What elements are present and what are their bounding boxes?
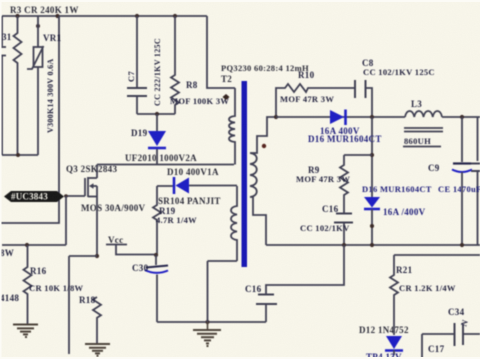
wire to output cap (442, 116, 480, 118)
wire primary top lead (207, 16, 235, 88)
wire neutral (2, 154, 38, 156)
junction (370, 153, 374, 157)
wire gate lead (64, 195, 85, 197)
node R3 junction (15, 14, 19, 18)
junction bus (55, 14, 59, 18)
wire aux ground lead (207, 261, 209, 322)
wire aux bottom (208, 260, 238, 262)
junction (460, 243, 464, 247)
junction C9 top (460, 115, 464, 119)
resistor R31 (partial, left) (14, 16, 22, 155)
junction Vcc node (154, 253, 158, 257)
node secondary polarity dot (262, 144, 266, 148)
diode D19 (148, 114, 166, 165)
ground center (193, 322, 221, 346)
junction D19 top (155, 112, 159, 116)
diode D16 first (330, 110, 346, 126)
junction R10 node (274, 115, 278, 119)
inductor L3 (403, 111, 443, 147)
transformer T2 primary winding (229, 88, 235, 165)
net flag UC3843 (4, 191, 64, 202)
wire clamp node (137, 113, 175, 115)
junction gate node (64, 194, 68, 198)
diode D16 second (364, 117, 380, 245)
resistor R16 (24, 245, 32, 324)
wire C16 riser (266, 245, 344, 294)
junction (16, 153, 20, 157)
capacitor C10 fragment (right edge) (471, 117, 480, 245)
wire feedback (394, 254, 480, 256)
junction (205, 320, 209, 324)
scan noise overlay (0, 0, 1, 1)
wire secondary output (276, 116, 405, 118)
wire sense down (68, 256, 70, 354)
wire R16 rail (2, 244, 66, 246)
capacitor C9 (452, 117, 472, 245)
capacitor C31 fragment (left edge) (0, 16, 6, 155)
resistor R19 (153, 186, 161, 255)
mark diamond (223, 94, 230, 100)
wire left rail down (0, 16, 59, 223)
resistor R10 (276, 84, 355, 117)
wire gate pulldown riser (65, 196, 67, 245)
zener D12 (385, 336, 403, 355)
capacitor C16 output (256, 295, 277, 323)
capacitor C16 snubber (334, 214, 353, 246)
junction C7 top (135, 14, 139, 18)
junction (370, 243, 374, 247)
resistor R21 (390, 255, 398, 335)
Vcc symbol (106, 245, 156, 255)
wire snubber top (344, 154, 372, 156)
junction (342, 243, 346, 247)
varistor VR1 (27, 16, 44, 155)
junction (25, 243, 29, 247)
capacitor C7 (127, 16, 147, 114)
wire output ground bus (266, 244, 480, 246)
mosfet Q3 (85, 165, 97, 257)
wire top bus (2, 15, 207, 17)
wire ground rail (157, 321, 266, 323)
wire drain rail (97, 164, 234, 166)
resistor R9 (340, 155, 348, 213)
capacitor C34 (422, 323, 480, 359)
junction VR1 top (36, 24, 40, 28)
transformer T2 aux winding (231, 186, 237, 261)
ground R16 (13, 325, 38, 338)
transformer T2 core (242, 81, 248, 267)
junction R8 top (173, 14, 177, 18)
ground R18 (85, 344, 110, 356)
wire sense (69, 255, 97, 257)
junction (370, 224, 374, 228)
transformer T2 secondary winding (250, 117, 276, 245)
junction source node (95, 254, 99, 258)
capacitor C30 (145, 255, 168, 322)
resistor R18 (93, 297, 101, 344)
junction (370, 115, 374, 119)
diode D10 (157, 177, 237, 194)
capacitor C8 (355, 80, 372, 117)
resistor R8 (171, 16, 179, 114)
